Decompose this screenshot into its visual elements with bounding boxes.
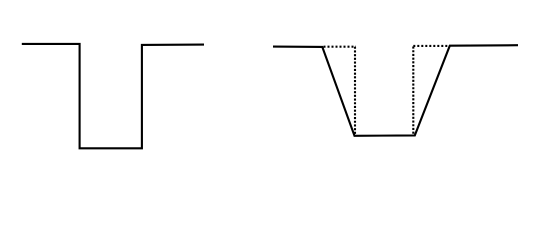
dotted ideal rising edge (vertical, right) bbox=[412, 47, 414, 135]
dotted ideal falling edge (vertical, left) bbox=[354, 47, 356, 135]
ideal rectangular pulse waveform (left figure) bbox=[22, 44, 204, 148]
dotted ideal top edge, right side bbox=[413, 45, 449, 47]
dotted ideal top edge, left side bbox=[324, 46, 357, 48]
trapezoidal pulse solid outline (right figure) bbox=[273, 45, 518, 136]
